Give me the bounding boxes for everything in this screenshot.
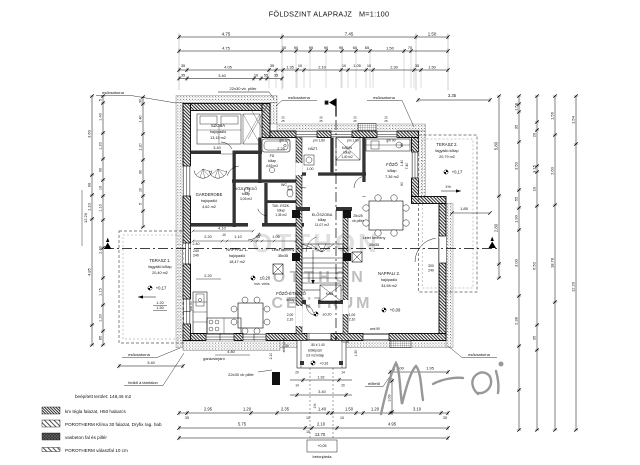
svg-text:14: 14 [295,384,299,388]
svg-text:km tégla falazat, H50 habarcs: km tégla falazat, H50 habarcs [65,409,126,414]
svg-text:pm 1,80: pm 1,80 [313,139,325,143]
svg-text:FŐZŐ: FŐZŐ [386,162,398,167]
svg-text:1,00: 1,00 [349,313,356,317]
svg-text:4.75: 4.75 [222,31,231,36]
svg-text:3.40: 3.40 [147,360,155,365]
svg-text:2.10: 2.10 [318,64,326,69]
svg-text:3.69: 3.69 [387,395,391,402]
svg-text:60: 60 [400,182,404,186]
svg-text:1.95: 1.95 [426,366,435,371]
svg-text:3.00: 3.00 [513,258,518,267]
svg-text:35: 35 [415,63,419,68]
svg-text:1%: 1% [445,184,451,189]
svg-text:beépített terület: 148,46 m2: beépített terület: 148,46 m2 [75,394,132,399]
svg-text:2,00: 2,00 [287,313,294,317]
svg-text:betonjárda: betonjárda [313,454,333,459]
svg-text:kőlap: kőlap [277,209,285,213]
svg-text:18,47 m2: 18,47 m2 [229,260,245,264]
svg-text:5: 5 [138,203,142,205]
svg-text:kőlap: kőlap [343,151,351,155]
svg-text:20: 20 [531,132,536,137]
svg-text:1.50: 1.50 [345,407,354,412]
svg-text:1.50: 1.50 [428,64,436,69]
svg-text:4,62 m2: 4,62 m2 [202,205,216,209]
svg-text:hajópadló: hajópadló [229,254,245,258]
svg-text:55: 55 [264,73,268,78]
svg-text:4,69 m2: 4,69 m2 [266,164,278,168]
svg-text:85: 85 [98,336,102,340]
svg-text:WC: WC [281,183,287,187]
svg-text:POROTHERM válaszfal 10 cm: POROTHERM válaszfal 10 cm [65,448,128,453]
svg-text:+0,09: +0,09 [390,308,401,313]
svg-text:20: 20 [295,371,299,375]
svg-text:1.20: 1.20 [98,142,102,149]
svg-text:1.20: 1.20 [243,407,252,412]
svg-text:1.10: 1.10 [98,204,102,211]
svg-text:3,05 m2: 3,05 m2 [240,197,252,201]
svg-text:2.30: 2.30 [390,64,398,69]
svg-text:7.45: 7.45 [345,31,354,36]
svg-text:kőlap: kőlap [318,218,326,222]
svg-text:esőcsatorna: esőcsatorna [128,352,151,357]
svg-text:NAPPALI 1.: NAPPALI 1. [226,247,248,252]
svg-text:TERASZ 2.: TERASZ 2. [436,142,457,147]
svg-text:POROTHERM Klíma 30 falazat, Dr: POROTHERM Klíma 30 falazat, Dryfix rag. … [65,422,162,427]
svg-text:fedkő a támfalon: fedkő a támfalon [128,380,158,385]
svg-text:65: 65 [365,45,370,50]
svg-text:12.20: 12.20 [570,281,575,292]
svg-text:1.92: 1.92 [318,375,325,379]
svg-text:25: 25 [281,119,285,123]
svg-text:vasbeton fal és pillér: vasbeton fal és pillér [65,435,107,440]
svg-text:13.70: 13.70 [315,432,326,437]
svg-text:esőcsatorna: esőcsatorna [468,352,491,357]
svg-text:20,79 m2: 20,79 m2 [439,155,455,159]
svg-text:4.95: 4.95 [388,422,397,427]
svg-text:2.10: 2.10 [269,353,273,360]
svg-text:35: 35 [181,73,185,78]
svg-text:HÁZT.: HÁZT. [308,147,318,151]
svg-text:35: 35 [513,124,518,129]
svg-text:7,36 m2: 7,36 m2 [385,175,399,179]
svg-text:Leier kémény: Leier kémény [363,236,386,240]
svg-text:1.10: 1.10 [234,235,241,239]
svg-text:5.75: 5.75 [238,422,247,427]
svg-text:3.35: 3.35 [448,93,457,98]
svg-text:1.20: 1.20 [156,301,163,305]
svg-text:25x25: 25x25 [353,214,363,218]
svg-text:14: 14 [341,371,345,375]
svg-text:300: 300 [428,264,434,268]
svg-text:1.05: 1.05 [353,63,361,68]
svg-text:35: 35 [270,63,274,68]
svg-text:gm 90: gm 90 [279,139,288,143]
svg-text:±0,20: ±0,20 [323,313,332,317]
svg-text:1.54: 1.54 [570,115,575,124]
svg-text:35x35: 35x35 [369,243,379,247]
svg-text:95: 95 [339,45,344,50]
svg-text:10: 10 [138,188,142,192]
svg-text:1.50: 1.50 [156,306,163,310]
svg-text:240: 240 [193,249,199,253]
svg-text:+0,17: +0,17 [452,170,463,175]
svg-text:90: 90 [324,45,329,50]
svg-text:5: 5 [98,99,102,101]
svg-text:2.40: 2.40 [98,246,102,253]
svg-text:előtető: előtető [368,381,381,386]
svg-text:NAPPALI 2.: NAPPALI 2. [378,271,400,276]
svg-text:+0,17: +0,17 [156,286,167,291]
svg-text:3.60: 3.60 [86,129,91,138]
svg-text:3.40: 3.40 [218,73,226,78]
svg-text:±0,20: ±0,20 [260,276,271,281]
svg-text:22x30 vb pillér: 22x30 vb pillér [228,372,254,377]
svg-text:240: 240 [193,254,199,258]
svg-text:kőlap: kőlap [286,298,295,302]
svg-text:1.58: 1.58 [513,102,518,111]
svg-text:5.80: 5.80 [493,141,498,150]
svg-text:40: 40 [285,344,289,348]
svg-text:TAK. ESZK.: TAK. ESZK. [272,204,290,208]
svg-text:1.20: 1.20 [98,314,102,321]
svg-text:2.20: 2.20 [204,274,211,278]
svg-text:70: 70 [408,45,413,50]
svg-text:34,58 m2: 34,58 m2 [381,284,397,288]
svg-text:1.50: 1.50 [354,350,358,357]
svg-text:2,10: 2,10 [287,318,294,322]
svg-text:4.05: 4.05 [224,64,232,69]
svg-text:90: 90 [86,182,91,187]
svg-text:30: 30 [282,45,287,50]
svg-text:KABIN: KABIN [342,146,353,150]
svg-text:kőlap: kőlap [387,169,396,173]
svg-text:1.20: 1.20 [138,143,142,150]
svg-text:ELŐSZOBA: ELŐSZOBA [312,212,333,217]
svg-text:2.20: 2.20 [204,235,211,239]
svg-text:35x35: 35x35 [278,254,288,258]
svg-text:hajópadló: hajópadló [201,199,217,203]
svg-text:3.40: 3.40 [213,146,220,150]
svg-text:2,10: 2,10 [349,318,356,322]
svg-text:35: 35 [531,335,536,340]
svg-text:kőlap: kőlap [242,192,250,196]
svg-text:TERASZ 1.: TERASZ 1. [149,258,170,263]
svg-text:30: 30 [138,99,142,103]
svg-text:esőcsatorna: esőcsatorna [373,95,396,100]
svg-text:fagyálló kőlap: fagyálló kőlap [435,149,458,153]
svg-text:1.10: 1.10 [86,202,91,211]
svg-text:2.60: 2.60 [549,166,554,175]
svg-text:KÖZLEKEDŐ: KÖZLEKEDŐ [235,186,257,191]
svg-text:12.20: 12.20 [83,212,88,223]
svg-text:4.85: 4.85 [86,267,91,276]
svg-text:90: 90 [98,168,102,172]
svg-text:1.40: 1.40 [98,113,102,120]
svg-text:55: 55 [513,196,518,201]
svg-text:35: 35 [443,416,447,420]
svg-text:+0,16: +0,16 [341,340,349,344]
svg-text:10: 10 [222,233,226,237]
svg-text:35: 35 [181,63,185,68]
svg-text:esőcsatorna: esőcsatorna [102,90,125,95]
svg-text:1.20: 1.20 [371,407,380,412]
svg-text:kőlap: kőlap [268,159,276,163]
svg-text:hajópadló: hajópadló [381,278,397,282]
svg-text:1.85: 1.85 [460,206,469,211]
svg-text:6.50: 6.50 [531,261,536,270]
svg-text:+0,05: +0,05 [317,444,326,448]
svg-text:1.15: 1.15 [98,288,102,295]
svg-text:10: 10 [257,233,261,237]
svg-text:60: 60 [353,45,358,50]
svg-text:2.40: 2.40 [193,242,200,246]
svg-text:1.40: 1.40 [400,160,404,167]
svg-text:pm 1,80: pm 1,80 [347,139,359,143]
svg-text:13,15 m2: 13,15 m2 [210,136,226,140]
svg-text:+0,16: +0,16 [320,362,329,366]
svg-text:vb pillér: vb pillér [352,219,365,223]
svg-text:90: 90 [294,45,299,50]
svg-text:2.95: 2.95 [204,407,213,412]
svg-text:1.00: 1.00 [307,167,314,171]
svg-text:10: 10 [340,416,344,420]
svg-text:Előlépcső: Előlépcső [308,348,322,352]
svg-text:3.50: 3.50 [513,161,518,170]
svg-text:80 # 1.40: 80 # 1.40 [311,343,325,347]
svg-text:1.50: 1.50 [428,31,437,36]
svg-text:1.40: 1.40 [138,115,142,122]
svg-text:FÖLDSZINT ALAPRAJZ M=1:100: FÖLDSZINT ALAPRAJZ M=1:100 [269,10,390,19]
svg-text:KAM.: KAM. [326,292,334,296]
svg-text:18.78: 18.78 [549,257,554,268]
svg-text:3.40: 3.40 [318,390,325,394]
svg-text:1.56: 1.56 [549,111,554,120]
svg-text:22x30 vb. pillér: 22x30 vb. pillér [230,86,258,91]
svg-text:10: 10 [306,416,310,420]
svg-text:SZOBA: SZOBA [211,123,225,128]
svg-text:OTTHON: OTTHON [273,269,368,286]
svg-text:1.35: 1.35 [286,64,294,69]
svg-text:FÜ: FÜ [270,154,275,158]
svg-text:gm 90: gm 90 [386,139,395,143]
svg-text:7.40: 7.40 [405,163,409,170]
svg-text:GARDEROBE: GARDEROBE [196,192,223,197]
svg-text:1.90: 1.90 [513,214,518,223]
svg-text:1.50: 1.50 [386,45,395,50]
svg-text:ami 90: ami 90 [370,327,380,331]
svg-text:1,40 m2: 1,40 m2 [341,155,353,159]
svg-text:10: 10 [306,430,310,434]
svg-text:hajópadló: hajópadló [210,130,226,134]
svg-text:35: 35 [185,416,189,420]
svg-text:pm 90: pm 90 [189,301,193,311]
svg-text:4.10: 4.10 [218,227,225,231]
svg-text:90: 90 [138,170,142,174]
svg-text:3.15: 3.15 [531,164,536,173]
svg-text:FŐZŐ-ÉTKEZŐ: FŐZŐ-ÉTKEZŐ [276,291,307,296]
svg-text:25: 25 [353,119,357,123]
svg-text:2.35: 2.35 [281,407,290,412]
svg-text:2.80: 2.80 [493,223,498,232]
svg-text:fagyálló kőlap: fagyálló kőlap [148,265,171,269]
svg-text:11,07 m2: 11,07 m2 [315,223,329,227]
svg-text:buh. vörös: buh. vörös [255,282,270,286]
svg-text:3.10: 3.10 [413,407,422,412]
svg-text:2.25: 2.25 [277,147,284,151]
svg-text:25: 25 [384,119,388,123]
svg-text:3,9 m2 kőlap: 3,9 m2 kőlap [306,354,324,358]
svg-text:35: 35 [274,73,278,78]
svg-text:95: 95 [309,45,314,50]
svg-text:1%: 1% [313,404,317,409]
svg-text:20: 20 [341,384,345,388]
svg-text:esőcsatorna: esőcsatorna [288,95,311,100]
svg-text:garázslejáró: garázslejáró [203,356,226,361]
svg-text:25: 25 [319,119,323,123]
svg-text:10: 10 [531,186,536,191]
svg-text:1.40: 1.40 [318,407,327,412]
svg-text:4.80: 4.80 [227,350,234,354]
svg-text:1,35 m2: 1,35 m2 [275,213,287,217]
svg-text:10: 10 [98,186,102,190]
svg-text:240: 240 [428,269,434,273]
svg-text:20,40 m2: 20,40 m2 [152,271,168,275]
svg-text:4.75: 4.75 [222,45,231,50]
svg-text:2.38: 2.38 [513,316,518,325]
svg-text:2.10: 2.10 [317,422,326,427]
svg-text:1.05: 1.05 [272,235,279,239]
